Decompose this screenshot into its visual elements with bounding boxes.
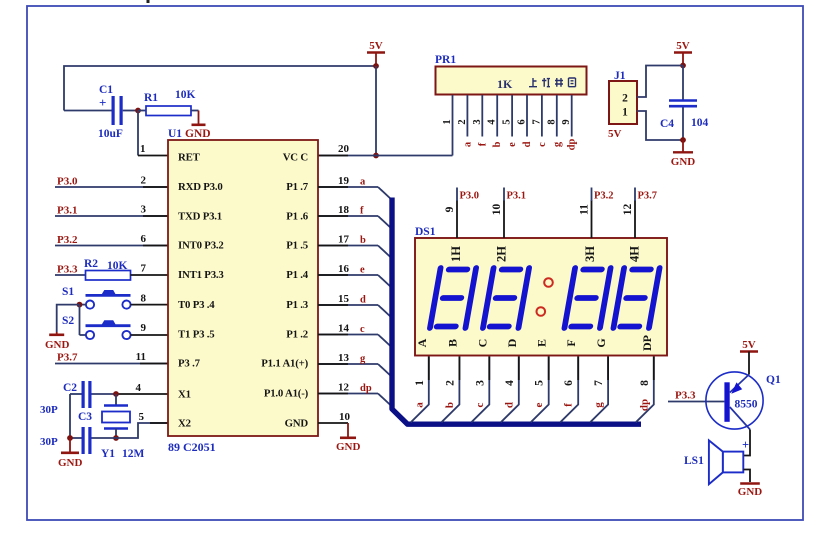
wire DS1 bottom pin 3 net c — [471, 357, 489, 423]
svg-text:E: E — [535, 339, 549, 347]
svg-text:P3.2: P3.2 — [57, 234, 78, 246]
wire VCC net — [318, 155, 453, 157]
svg-text:8: 8 — [141, 293, 147, 305]
svg-text:7: 7 — [141, 263, 147, 275]
svg-text:7: 7 — [531, 119, 542, 124]
svg-text:C4: C4 — [660, 118, 674, 130]
svg-text:dp: dp — [360, 383, 372, 394]
svg-text:19: 19 — [338, 175, 350, 187]
wire S1 left stub — [80, 304, 86, 306]
svg-text:16: 16 — [338, 263, 350, 275]
svg-text:14: 14 — [338, 323, 350, 335]
svg-text:3H: 3H — [583, 246, 597, 262]
wire C2 right lead to X1 — [92, 393, 117, 395]
svg-text:30P: 30P — [40, 404, 58, 416]
node ground junction — [67, 435, 73, 441]
svg-text:3: 3 — [141, 204, 147, 216]
svg-text:a: a — [360, 177, 366, 188]
wire DS1 top pin 10 net P3.1 — [503, 200, 505, 238]
seven-segment digit 4 — [613, 268, 659, 328]
wire P3.3 to R2 — [55, 274, 86, 276]
wire P1 pin 12 net dp — [318, 393, 378, 395]
wire P3.1 to pin 3 — [55, 215, 168, 217]
wire X1 to crystal — [115, 394, 117, 406]
svg-text:VC C: VC C — [283, 152, 308, 164]
svg-text:b: b — [444, 402, 456, 408]
svg-text:f: f — [563, 403, 575, 407]
wire DS1 bottom pin 1 net a — [411, 357, 429, 423]
svg-text:d: d — [360, 295, 366, 306]
svg-text:S1: S1 — [62, 286, 74, 298]
svg-text:R2: R2 — [84, 258, 98, 270]
node VCC junction — [373, 153, 379, 159]
svg-text:12: 12 — [622, 204, 634, 216]
svg-text:P3.7: P3.7 — [57, 352, 78, 364]
svg-text:C2: C2 — [63, 382, 77, 394]
wire S1 to pin 8 — [131, 304, 168, 306]
wire P1 pin 17 net b — [318, 245, 378, 247]
svg-text:GND: GND — [671, 156, 696, 168]
svg-text:P1 .7: P1 .7 — [286, 181, 309, 193]
svg-text:10: 10 — [339, 411, 351, 423]
wire PR1 pin 4 net b — [496, 95, 498, 137]
svg-text:3: 3 — [472, 119, 483, 124]
ground crystal — [69, 438, 71, 452]
wire J1 pin 2 to 5V — [637, 66, 683, 98]
svg-text:5V: 5V — [369, 40, 383, 52]
svg-text:1H: 1H — [449, 246, 463, 262]
svg-text:P1 .4: P1 .4 — [286, 269, 309, 281]
svg-text:a: a — [413, 402, 425, 408]
wire collector to speaker — [744, 430, 751, 456]
svg-text:30P: 30P — [40, 436, 58, 448]
svg-text:2: 2 — [444, 380, 456, 386]
svg-text:RET: RET — [178, 152, 201, 164]
svg-text:P3.7: P3.7 — [638, 191, 658, 202]
wire RET net pin 1 — [137, 111, 139, 156]
wire R2 to pin 7 — [131, 274, 169, 276]
wire DS1 bottom pin 6 net f — [560, 357, 578, 423]
svg-text:P3.0: P3.0 — [57, 176, 78, 188]
node J1 bottom junction — [680, 137, 686, 143]
svg-text:c: c — [537, 142, 548, 147]
wire junction to S2 — [79, 305, 81, 335]
svg-text:T1 P3 .5: T1 P3 .5 — [178, 329, 215, 341]
node X2 junction — [113, 435, 119, 441]
svg-text:Q1: Q1 — [766, 374, 781, 386]
transistor Q1 8550 — [706, 372, 763, 429]
wire DS1 top pin 9 net P3.0 — [456, 200, 458, 238]
svg-text:P3.2: P3.2 — [594, 191, 614, 202]
svg-text:12: 12 — [338, 382, 350, 394]
wire PR1 pin 2 net a — [466, 95, 468, 137]
svg-text:9: 9 — [561, 119, 572, 124]
ground C4 — [682, 140, 684, 152]
svg-text:INT0 P3.2: INT0 P3.2 — [178, 240, 224, 252]
svg-text:S2: S2 — [62, 315, 74, 327]
svg-text:e: e — [360, 265, 365, 276]
wire P3.2 to pin 6 — [55, 245, 168, 247]
svg-text:+: + — [99, 95, 106, 110]
svg-text:LS1: LS1 — [684, 455, 704, 467]
wire DS1 top pin 11 net P3.2 — [591, 200, 593, 238]
svg-text:10K: 10K — [175, 89, 196, 101]
wire P1 pin 14 net c — [318, 334, 378, 336]
svg-text:1K: 1K — [497, 77, 513, 91]
svg-text:U1: U1 — [168, 128, 182, 140]
wire DS1 top pin 12 net P3.7 — [634, 200, 636, 238]
wire P1 pin 16 net e — [318, 274, 378, 276]
svg-text:P3.1: P3.1 — [57, 205, 77, 217]
svg-text:GND: GND — [336, 441, 361, 453]
wire DS1 bottom pin 8 net dp — [636, 357, 654, 423]
svg-text:P1 .6: P1 .6 — [286, 210, 309, 222]
svg-text:11: 11 — [136, 351, 146, 363]
wire PR1 pin 1 to 5V rail — [452, 95, 454, 156]
node X1 junction — [113, 391, 119, 397]
svg-text:e: e — [507, 142, 518, 147]
svg-text:11: 11 — [579, 204, 591, 215]
svg-text:R1: R1 — [144, 92, 158, 104]
svg-text:b: b — [360, 235, 366, 246]
svg-text:6: 6 — [141, 233, 147, 245]
wire PR1 pin 3 net f — [481, 95, 483, 137]
svg-text:PR1: PR1 — [435, 54, 456, 66]
svg-text:17: 17 — [338, 234, 350, 246]
label pull-up chinese — [529, 78, 537, 87]
svg-text:5: 5 — [534, 380, 546, 386]
svg-text:T0 P3 .4: T0 P3 .4 — [178, 299, 215, 311]
svg-text:5: 5 — [139, 411, 145, 423]
svg-text:P1 .5: P1 .5 — [286, 240, 308, 252]
IC U1 89C2051 — [168, 140, 318, 436]
svg-text:9: 9 — [141, 322, 147, 334]
svg-text:f: f — [477, 142, 488, 146]
svg-text:4: 4 — [487, 119, 498, 125]
wire J1 pin 1 to ground net — [637, 111, 683, 140]
svg-text:d: d — [522, 141, 533, 147]
svg-text:D: D — [505, 338, 519, 347]
svg-text:g: g — [593, 402, 605, 408]
wire P3.7 to pin 11 — [55, 363, 168, 365]
svg-text:15: 15 — [338, 293, 350, 305]
wire X2 net to pin 5 — [116, 423, 168, 438]
wire C2 C3 left leads — [70, 393, 82, 395]
ground LS1 — [740, 482, 760, 485]
svg-text:2: 2 — [141, 175, 147, 187]
svg-text:a: a — [462, 141, 473, 147]
colon upper dot — [544, 278, 553, 287]
svg-text:P1 .3: P1 .3 — [286, 299, 309, 311]
svg-text:1: 1 — [442, 119, 453, 124]
svg-text:GND: GND — [738, 486, 763, 498]
svg-text:dp: dp — [567, 139, 578, 151]
svg-text:10uF: 10uF — [98, 128, 123, 140]
wire 5V vertical to VCC — [375, 66, 377, 156]
svg-text:2: 2 — [622, 93, 628, 105]
wire DS1 bottom pin 5 net e — [531, 357, 549, 423]
wire C1 left lead — [64, 110, 112, 112]
svg-text:5: 5 — [502, 119, 513, 124]
svg-text:c: c — [360, 324, 365, 335]
ground U1 pin 10 — [340, 436, 356, 439]
wire C1 right lead — [123, 110, 138, 112]
svg-text:F: F — [564, 339, 578, 346]
svg-text:2H: 2H — [495, 246, 509, 262]
clipped text artifact top — [147, 0, 150, 3]
svg-text:1: 1 — [414, 380, 426, 386]
node 5V rail junction — [373, 63, 379, 69]
node J1 top junction — [680, 63, 686, 69]
capacitor C4 104 — [682, 66, 684, 100]
svg-text:2: 2 — [457, 119, 468, 124]
svg-text:12M: 12M — [122, 448, 145, 460]
svg-text:GND: GND — [45, 339, 70, 351]
wire P1 pin 13 net g — [318, 363, 378, 365]
svg-text:5V: 5V — [608, 128, 622, 140]
svg-text:P3.3: P3.3 — [675, 390, 696, 402]
wire PR1 pin 8 net g — [556, 95, 558, 137]
wire PR1 pin 7 net c — [541, 95, 543, 137]
ground S1 S2 — [56, 332, 58, 334]
svg-text:B: B — [445, 339, 459, 347]
wire P1 pin 19 net a — [318, 186, 378, 188]
svg-text:P1.1 A1(+): P1.1 A1(+) — [261, 358, 308, 370]
svg-text:GND: GND — [285, 418, 309, 430]
wire DS1 bottom pin 7 net g — [590, 357, 608, 423]
wire PR1 pin 5 net e — [511, 95, 513, 137]
wire DS1 bottom pin 4 net d — [501, 357, 519, 423]
svg-text:+: + — [742, 438, 749, 452]
wire DS1 bottom pin 2 net b — [441, 357, 459, 423]
svg-text:A: A — [415, 338, 429, 347]
wire R1 to ground — [191, 110, 199, 112]
svg-text:X2: X2 — [178, 418, 191, 430]
wire P1 pin 15 net d — [318, 304, 378, 306]
svg-text:INT1 P3.3: INT1 P3.3 — [178, 269, 224, 281]
wire crystal to X2 node — [115, 429, 117, 439]
svg-text:TXD P3.1: TXD P3.1 — [178, 210, 222, 222]
svg-text:20: 20 — [338, 143, 350, 155]
svg-text:6: 6 — [517, 119, 528, 124]
ground R1 — [192, 124, 206, 127]
colon lower dot — [537, 307, 546, 316]
svg-text:P3 .7: P3 .7 — [178, 358, 201, 370]
svg-text:P3.3: P3.3 — [57, 264, 78, 276]
wire P3.0 to pin 2 — [55, 186, 168, 188]
svg-text:C3: C3 — [78, 411, 92, 423]
wire GND pin 10 — [318, 422, 348, 424]
seven-segment digit 3 — [564, 268, 610, 328]
svg-text:P1.0 A1(-): P1.0 A1(-) — [264, 388, 309, 400]
node S1-S2 gnd junction — [77, 302, 83, 308]
svg-text:C: C — [475, 339, 489, 348]
node C1-R1-RET junction — [135, 108, 141, 114]
svg-text:P1 .2: P1 .2 — [286, 329, 308, 341]
svg-text:3: 3 — [474, 380, 486, 386]
svg-text:DP: DP — [640, 335, 654, 351]
svg-text:13: 13 — [338, 352, 350, 364]
svg-text:d: d — [503, 402, 515, 408]
svg-text:c: c — [474, 402, 486, 407]
crystal Y1 — [104, 404, 128, 406]
svg-text:10: 10 — [491, 204, 503, 216]
svg-text:4: 4 — [136, 382, 142, 394]
svg-text:DS1: DS1 — [415, 226, 436, 238]
svg-text:g: g — [552, 141, 563, 147]
svg-text:GND: GND — [58, 457, 83, 469]
svg-text:6: 6 — [563, 380, 575, 386]
svg-text:e: e — [533, 402, 545, 407]
svg-text:5V: 5V — [742, 339, 756, 351]
svg-text:5V: 5V — [676, 40, 690, 52]
svg-text:18: 18 — [338, 204, 350, 216]
svg-text:8550: 8550 — [735, 399, 758, 411]
svg-text:GND: GND — [185, 128, 211, 140]
bus segment wires — [392, 198, 641, 425]
svg-text:4: 4 — [504, 380, 516, 386]
svg-text:8: 8 — [639, 380, 651, 386]
seven-segment digit 2 — [483, 268, 529, 328]
svg-text:b: b — [492, 141, 503, 147]
wire PR1 pin 9 net dp — [571, 95, 573, 137]
wire C3 right lead — [92, 437, 117, 439]
seven-segment digit 1 — [430, 268, 476, 328]
wire PR1 pin 6 net d — [526, 95, 528, 137]
wire junction to ground — [57, 305, 80, 332]
svg-text:dp: dp — [638, 399, 650, 411]
svg-text:8: 8 — [546, 119, 557, 124]
svg-text:G: G — [594, 338, 608, 347]
svg-text:g: g — [360, 354, 366, 365]
svg-text:P3.0: P3.0 — [460, 191, 480, 202]
svg-text:Y1: Y1 — [101, 448, 115, 460]
svg-text:89 C2051: 89 C2051 — [168, 440, 216, 454]
wire P3.3 base lead — [668, 401, 724, 403]
svg-text:9: 9 — [444, 206, 456, 212]
wire 5V rail to C1 loop — [64, 66, 376, 111]
svg-text:7: 7 — [593, 380, 605, 386]
svg-text:104: 104 — [691, 117, 709, 129]
svg-text:1: 1 — [140, 143, 146, 155]
wire S2 to pin 9 — [131, 334, 168, 336]
svg-text:f: f — [360, 206, 364, 217]
wire P1 pin 18 net f — [318, 215, 378, 217]
wire 5V to emitter — [748, 352, 750, 375]
svg-text:1: 1 — [622, 107, 628, 119]
svg-text:4H: 4H — [628, 246, 642, 262]
svg-text:P3.1: P3.1 — [507, 191, 527, 202]
svg-text:RXD P3.0: RXD P3.0 — [178, 181, 223, 193]
svg-text:X1: X1 — [178, 389, 191, 401]
wire speaker to ground — [744, 470, 751, 483]
